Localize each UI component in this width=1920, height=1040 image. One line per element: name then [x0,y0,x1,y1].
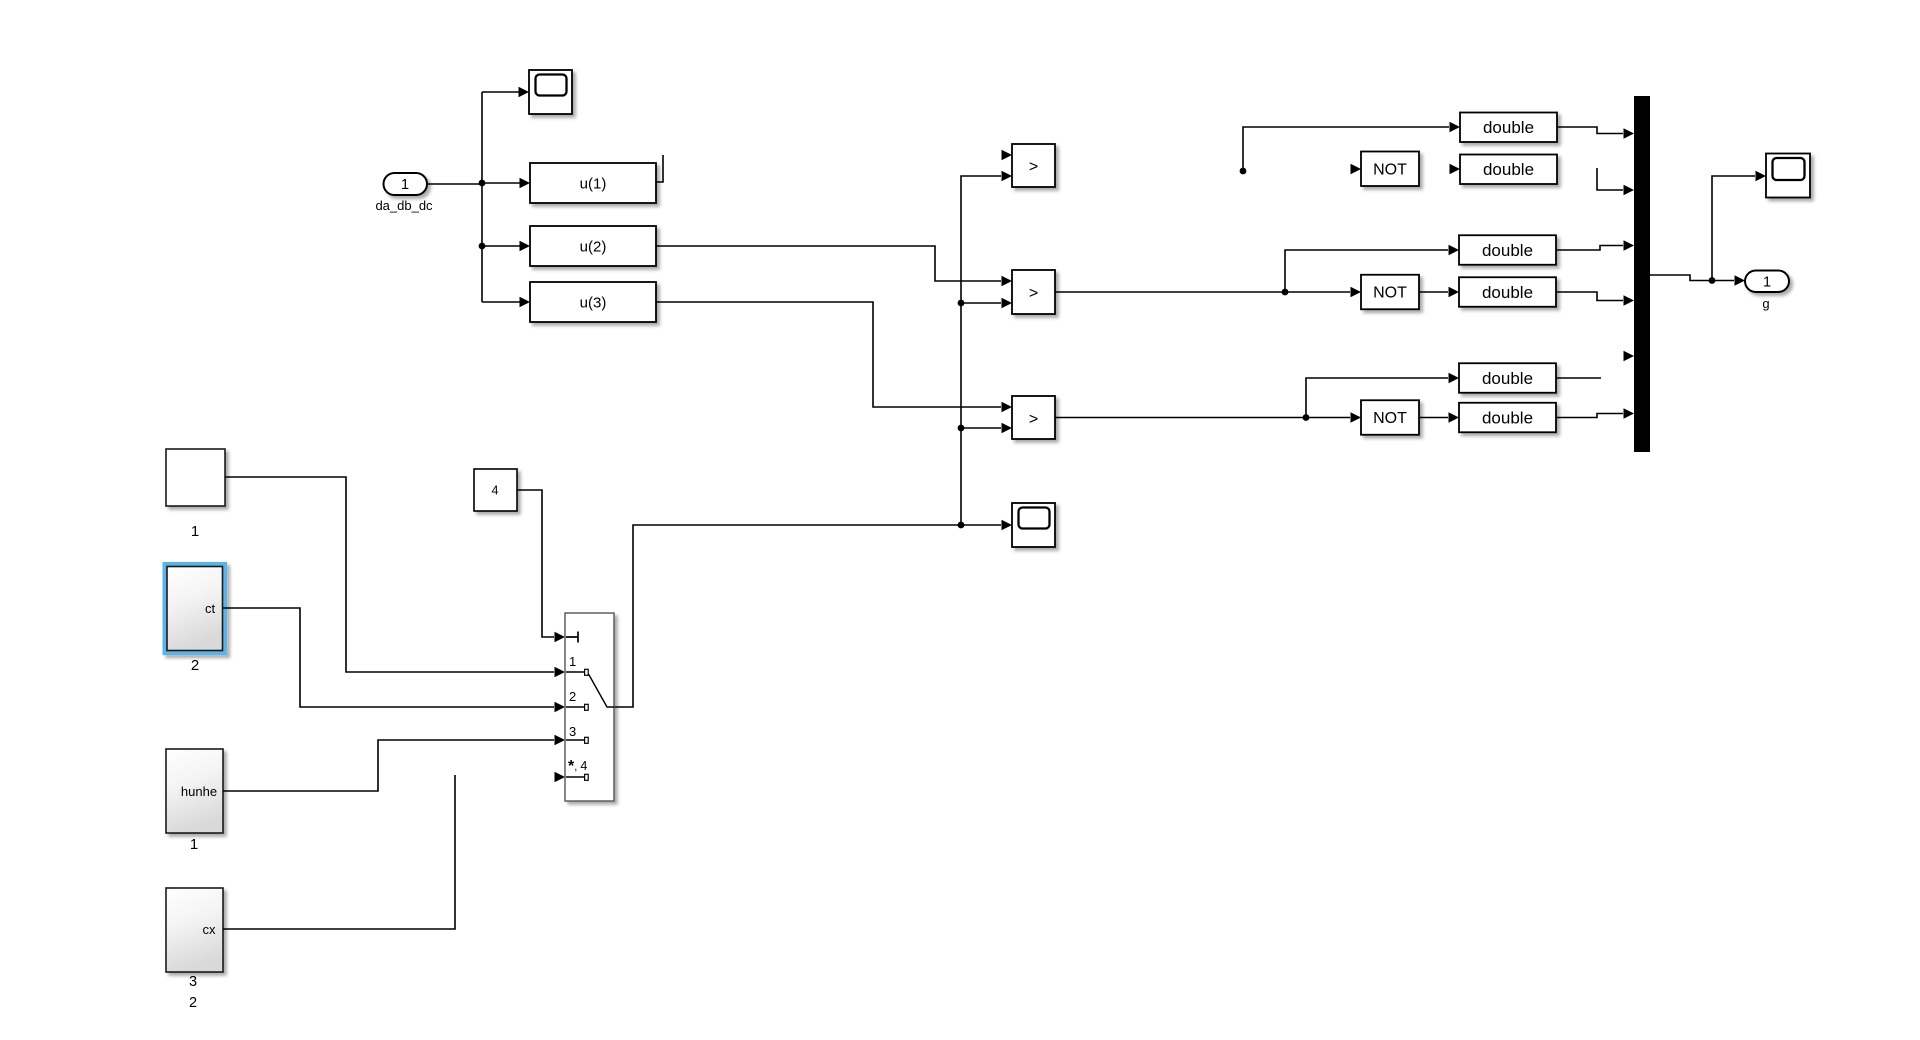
svg-text:hunhe: hunhe [181,784,217,799]
subsystem hunhe [166,749,223,853]
wire cx dangling [223,775,455,929]
svg-text:u(1): u(1) [580,176,607,193]
wire stub from u(1) output [656,155,663,182]
relational operator 2 [1012,270,1055,314]
wire double3 to mux port3 [1556,240,1634,251]
svg-text:*, 4: *, 4 [568,758,587,775]
junction dot mux output [1709,277,1716,284]
fcn block u(3) [530,282,656,322]
wire branch to u(2) [482,241,530,252]
wire branch to u(1) [482,178,530,189]
wire mux output to outport g [1650,275,1745,286]
svg-text:2: 2 [569,689,576,704]
svg-text:g: g [1762,296,1769,311]
svg-text:3: 3 [569,724,576,739]
wire double4 to mux port4 [1556,292,1634,306]
unconnected input arrowhead mux port5 [1624,351,1635,362]
svg-text:double: double [1482,241,1533,260]
wire branch to scope1 [482,87,529,98]
relational operator 1 [1012,144,1055,187]
wire relational2 to NOT2 [1055,287,1361,298]
svg-text:1: 1 [190,836,198,853]
wire u(3) to relational3 [656,302,1012,412]
arrowhead into double1 [1450,122,1461,133]
svg-text:double: double [1483,118,1534,137]
wire dangling feed to double1 [1243,127,1449,171]
wire branch to relational3 second input [961,423,1012,434]
svg-text:4: 4 [492,484,499,498]
wire double1 to mux port1 [1557,127,1634,139]
wire shared vertical feed to relational second inputs [961,171,1012,525]
unconnected input arrowhead relational1 top [1002,150,1013,161]
wire double5 dangling output [1556,377,1601,379]
svg-text:u(2): u(2) [580,239,607,256]
wire trunk vertical [481,92,483,302]
svg-text:>: > [1029,285,1038,302]
svg-text:cx: cx [203,922,217,937]
wire u(2) to relational2 [656,246,1012,286]
fcn block u(2) [530,226,656,266]
svg-text:da_db_dc: da_db_dc [375,198,433,213]
scope Scope1 top-left [529,70,572,114]
multiport switch [565,613,614,801]
svg-text:u(3): u(3) [580,295,607,312]
outport 1 g [1745,271,1789,312]
wire dangling stub to mux port2 [1597,168,1634,195]
logical operator NOT3 [1361,400,1419,435]
junction dot relational3 output [1303,414,1310,421]
wire branch to scope3 [1712,171,1766,281]
svg-text:>: > [1029,159,1038,176]
wire branch to relational2 second input [961,298,1012,309]
svg-text:double: double [1482,409,1533,428]
svg-text:1: 1 [191,523,199,540]
mux bar [1634,96,1650,452]
wire branch to double3 [1285,245,1459,292]
wire double6 to mux port6 [1556,408,1634,419]
unconnected input arrowhead double2 [1450,164,1461,175]
relational operator 3 [1012,396,1055,439]
wire branch to double5 [1306,373,1459,418]
svg-text:1: 1 [569,654,576,669]
constant block 4 [474,469,517,511]
junction dot dangling feed [1240,168,1247,175]
inport 1 da_db_dc [375,173,433,213]
data type conversion double2 [1460,155,1557,185]
logical operator NOT2 [1361,275,1419,310]
svg-text:3: 3 [189,974,197,990]
logical operator NOT1 [1361,152,1419,187]
wire branch to u(3) [482,297,530,308]
svg-text:double: double [1482,283,1533,302]
scope Scope3 top right [1766,154,1810,198]
svg-text:2: 2 [191,657,199,674]
data type conversion double1 [1460,113,1557,143]
svg-text:NOT: NOT [1373,410,1407,427]
svg-text:double: double [1483,160,1534,179]
wire constant4 to switch control [517,490,565,642]
data type conversion double4 [1459,277,1556,307]
svg-text:>: > [1029,411,1038,428]
data type conversion double5 [1459,363,1556,393]
subsystem ct (selected) [165,564,225,674]
unconnected input arrowhead switch port 4 [555,772,566,783]
wire NOT3 to double6 [1419,412,1459,423]
svg-text:NOT: NOT [1373,162,1407,179]
junction dot trunk at u(2) [479,243,486,250]
scope Scope2 bottom middle [1012,503,1055,547]
svg-text:1: 1 [401,177,409,193]
junction dot trunk at u(1) [479,180,486,187]
wire relational3 to NOT3 [1055,412,1361,423]
junction dot relational2 feed [958,300,965,307]
unconnected input arrowhead NOT1 [1351,164,1362,175]
svg-text:NOT: NOT [1373,285,1407,302]
svg-text:1: 1 [1763,275,1771,291]
svg-text:ct: ct [205,601,216,616]
svg-text:double: double [1482,369,1533,388]
wire ct to switch input2 [223,608,565,712]
data type conversion double3 [1459,235,1556,265]
wire box1 to switch input1 [225,477,565,677]
wire NOT2 to double4 [1419,287,1459,298]
data type conversion double6 [1459,403,1556,433]
junction dot relational3 feed [958,425,965,432]
junction dot relational2 output [1282,289,1289,296]
wire hunhe to switch input3 [223,735,565,791]
fcn block u(1) [530,163,656,203]
subsystem cx [166,888,223,1011]
wire switch output to scope2 [614,520,1012,707]
svg-text:2: 2 [189,995,197,1011]
subsystem box 1 (empty) [166,449,225,540]
junction dot at vertical feed bottom [958,522,965,529]
wire inport to trunk [427,183,482,185]
